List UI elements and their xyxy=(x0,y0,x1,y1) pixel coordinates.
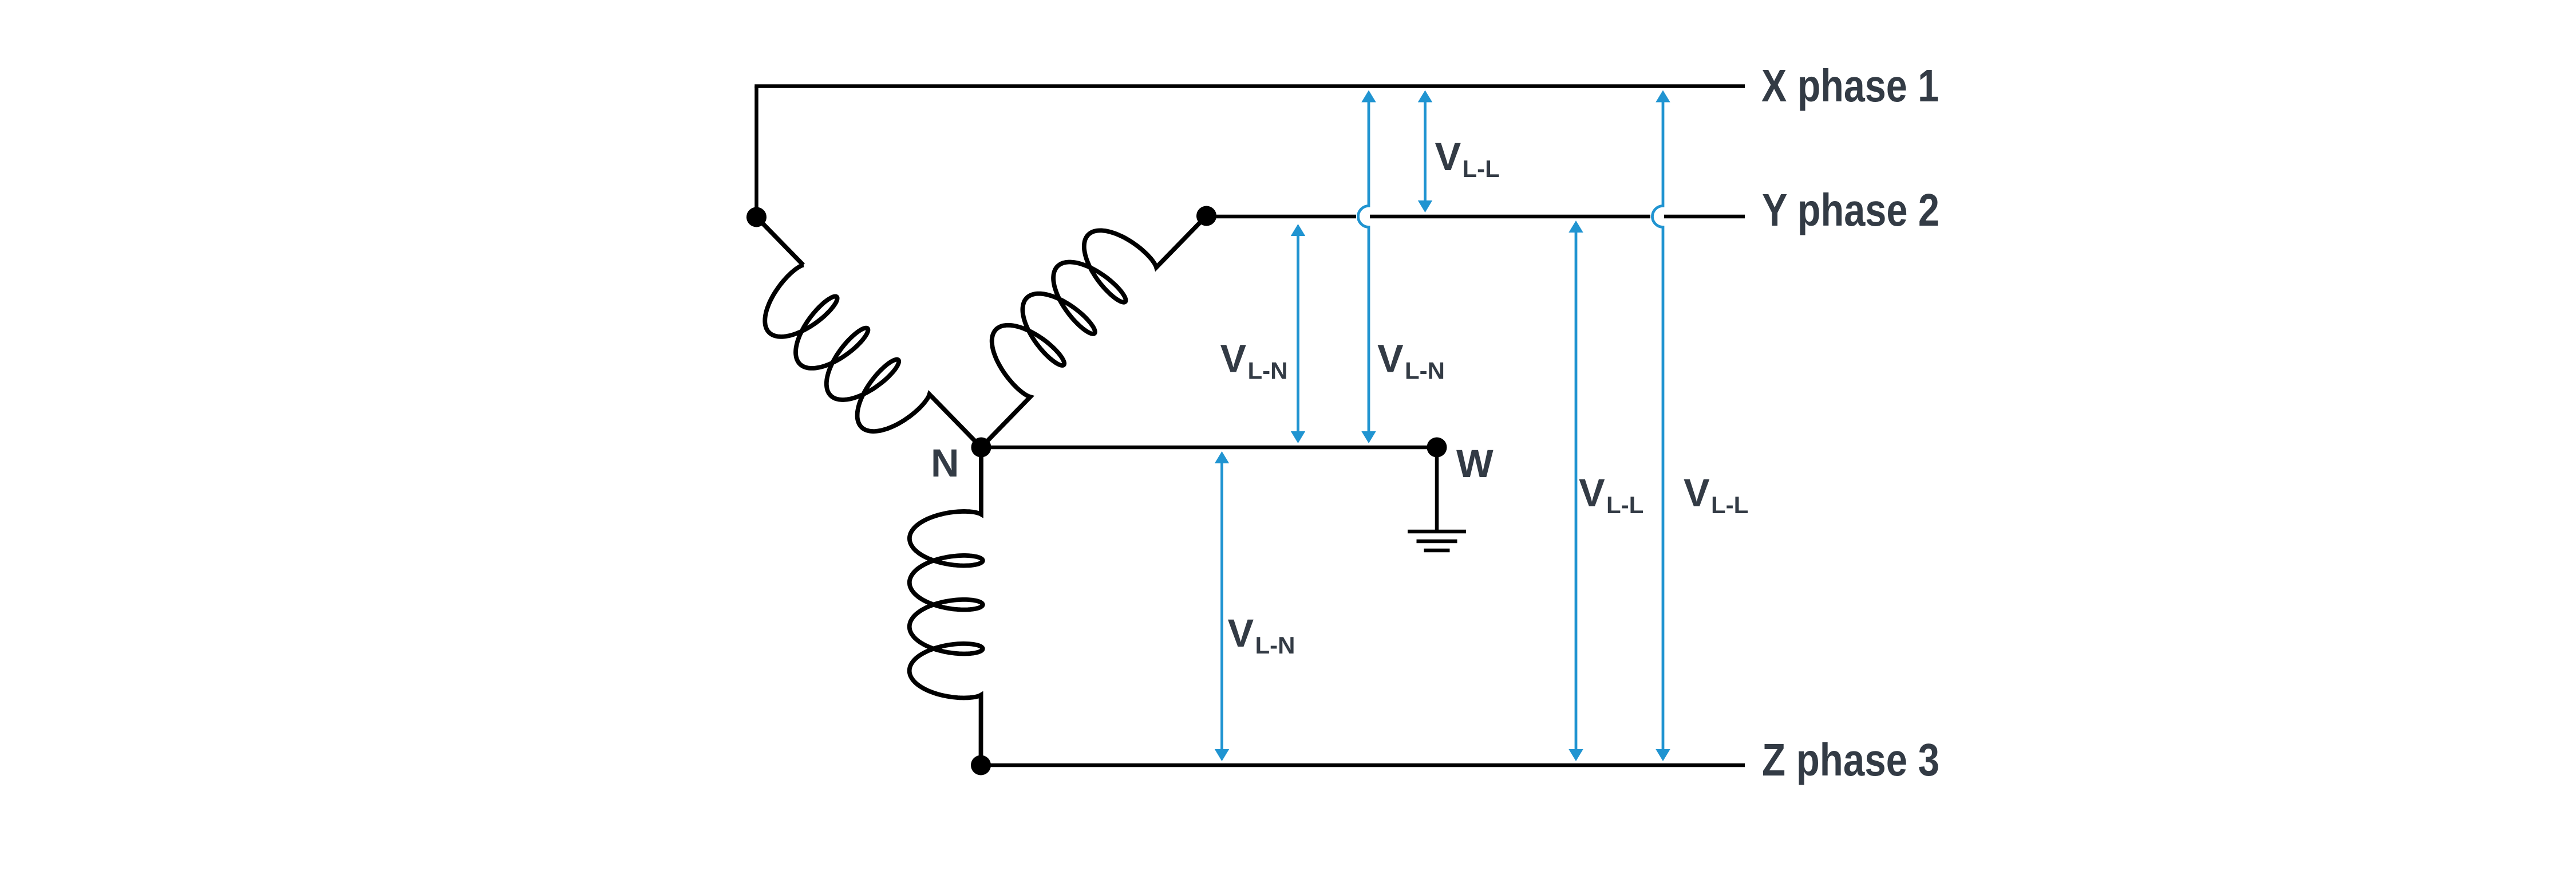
svg-text:L-N: L-N xyxy=(1405,357,1445,384)
svg-text:Z phase 3: Z phase 3 xyxy=(1762,734,1939,785)
svg-text:Y phase 2: Y phase 2 xyxy=(1762,184,1939,235)
svg-text:V: V xyxy=(1377,337,1404,381)
svg-text:V: V xyxy=(1684,471,1710,515)
svg-text:N: N xyxy=(931,441,959,485)
svg-text:L-L: L-L xyxy=(1711,491,1748,518)
svg-text:L-L: L-L xyxy=(1463,155,1500,182)
svg-text:X phase 1: X phase 1 xyxy=(1761,60,1939,111)
svg-text:V: V xyxy=(1435,135,1461,179)
svg-text:V: V xyxy=(1220,337,1247,381)
svg-text:L-L: L-L xyxy=(1606,491,1643,518)
svg-text:W: W xyxy=(1456,442,1494,486)
svg-text:V: V xyxy=(1228,611,1254,655)
svg-text:L-N: L-N xyxy=(1248,357,1288,384)
svg-text:V: V xyxy=(1579,471,1605,515)
svg-text:L-N: L-N xyxy=(1255,632,1295,659)
